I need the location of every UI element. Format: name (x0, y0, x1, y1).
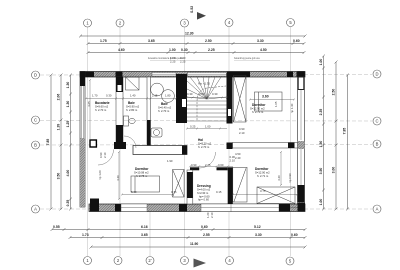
dimension left col mid: 2.06 1.39 3.50 (60, 74, 63, 211)
svg-text:11.90: 11.90 (190, 242, 198, 246)
door arc bath1 bottom (124, 136, 136, 148)
dimension row2 top: 1.75 3.65 2.50 3.30 0.60 (87, 42, 306, 45)
svg-text:hp 1.30: hp 1.30 (290, 103, 294, 113)
svg-text:0.30: 0.30 (106, 94, 112, 98)
svg-text:1.00: 1.00 (319, 199, 323, 206)
svg-text:h: 2.80 m: h: 2.80 m (126, 108, 138, 112)
svg-text:fereastra montata la grinda pe: fereastra montata la grinda peste (148, 57, 184, 60)
svg-text:3.65: 3.65 (141, 233, 148, 237)
dimension right col outer 7.85 (346, 74, 349, 211)
svg-text:0.35: 0.35 (66, 200, 70, 207)
svg-text:1.40: 1.40 (130, 94, 136, 98)
svg-text:3.60: 3.60 (262, 95, 269, 99)
svg-text:S=4.00 m2: S=4.00 m2 (197, 188, 211, 192)
interior vertical dim line kitchen x90 (89, 79, 91, 141)
door arc kitchen from hol (98, 150, 114, 166)
interior dim line top-right room y99 (249, 99, 295, 101)
svg-text:C: C (34, 118, 37, 123)
svg-text:3.65: 3.65 (87, 101, 91, 107)
svg-text:h: 2.71 m: h: 2.71 m (257, 174, 269, 178)
wardrobe with X bottom-left room (173, 170, 185, 198)
interior wall between baths vertical x147-150.5 (147, 77, 151, 148)
svg-text:h: 2.70 m: h: 2.70 m (198, 145, 210, 149)
svg-text:2.10: 2.10 (103, 152, 107, 158)
svg-text:1.90: 1.90 (167, 159, 173, 163)
svg-text:1.80: 1.80 (165, 94, 171, 98)
bottom-right bedroom label (255, 167, 270, 178)
svg-text:1.00: 1.00 (205, 125, 211, 129)
top-right bedroom bed (255, 92, 283, 111)
top-right bedroom label (250, 103, 266, 114)
grid bubble C right (373, 117, 381, 125)
svg-text:1.00: 1.00 (319, 59, 323, 66)
dimension bottom row2: 1.73 3.65 2.55 3.30 0.60 (69, 236, 307, 239)
grid axis line 4 vertical (228, 27, 230, 256)
svg-text:D: D (34, 73, 37, 78)
svg-text:Bucatarie: Bucatarie (95, 101, 110, 105)
svg-text:2.75: 2.75 (205, 163, 211, 167)
grid bubble B left (32, 141, 40, 149)
svg-text:1.30: 1.30 (66, 82, 70, 89)
bath1 room label (126, 101, 140, 112)
svg-text:2.50: 2.50 (199, 92, 205, 96)
dimension bottom row1: 0.55 6.16 0.60 5.12 (51, 228, 307, 231)
svg-text:S=10.08 m2: S=10.08 m2 (134, 171, 149, 175)
svg-text:A: A (376, 207, 379, 212)
svg-text:0.60: 0.60 (293, 39, 300, 43)
bed with X bottom-right room (257, 187, 295, 204)
svg-text:2.35: 2.35 (319, 109, 323, 116)
dressing left wall black part (187, 172, 193, 198)
svg-text:12.30: 12.30 (185, 32, 194, 36)
svg-text:3.20: 3.20 (116, 175, 120, 181)
dressing left wall x187-193 (187, 170, 193, 204)
mid wall band x133-187 (133, 146, 187, 155)
grid bubble 2 bottom (114, 257, 122, 265)
svg-text:Dormitor: Dormitor (255, 167, 269, 171)
grid bubble 3 top (181, 19, 189, 27)
dimension left col outer 7.85 (50, 74, 53, 211)
interior wall kitchen/bath vertical x116-123 (116, 77, 123, 148)
svg-text:Baie: Baie (128, 101, 135, 105)
north triangle bottom (194, 259, 207, 268)
dimension row3 top: 4.60 1.00 0.30 2.25 4.50 (87, 51, 306, 54)
svg-text:2': 2' (148, 258, 151, 263)
svg-text:hp 0.90: hp 0.90 (288, 173, 292, 183)
mid horizontal wall left pier (column, white core) (90, 140, 96, 147)
hol dim line y128 (186, 128, 227, 130)
svg-text:1.39: 1.39 (57, 124, 61, 131)
svg-text:hp 1.60: hp 1.60 (98, 170, 102, 180)
svg-text:0.25: 0.25 (190, 125, 196, 129)
svg-text:2.10: 2.10 (239, 131, 245, 135)
dimension line 12.30 top row1 (79, 35, 307, 38)
dressing top wall y167-170 (190, 167, 228, 170)
grid axis line 5 vertical (290, 27, 292, 256)
dimension left col inner: 1.30 1.30 1.25 4.00 0.35 (69, 74, 72, 211)
svg-text:0.30: 0.30 (181, 48, 188, 52)
svg-text:2.25: 2.25 (180, 60, 186, 64)
interior dim line upper rooms y98 (85, 98, 177, 100)
svg-text:3.20: 3.20 (277, 175, 281, 181)
svg-text:buiandrug peste gol usa: buiandrug peste gol usa (234, 57, 260, 60)
svg-text:B: B (376, 142, 379, 147)
dressing door dim line y166.3 (189, 165, 233, 167)
stair right wall x227-232.5 (227, 73, 233, 124)
grid bubble 1 bottom (84, 257, 92, 265)
north triangle top right (197, 12, 206, 20)
grid bubble D left (32, 71, 40, 79)
grid axis line 2' vertical (149, 207, 151, 256)
svg-text:0.60: 0.60 (201, 225, 208, 229)
grid bubble 3 bottom (181, 257, 189, 265)
svg-text:B: B (34, 143, 37, 148)
mid wall right thin segment x232-297 (227, 143, 298, 150)
grid bubble B right (373, 140, 381, 148)
svg-text:S=9.60 m2: S=9.60 m2 (95, 105, 109, 109)
grid bubble 4 top (225, 19, 233, 27)
bottom-left bedroom bed (131, 176, 160, 192)
svg-text:2.25: 2.25 (208, 48, 215, 52)
svg-text:1.73: 1.73 (82, 233, 89, 237)
svg-text:S=8.20 m2: S=8.20 m2 (198, 142, 212, 146)
svg-text:0.30: 0.30 (187, 92, 193, 96)
dimension right col inner: 1.00 2.35 1.50 3.50 1.00 (322, 55, 325, 211)
svg-text:0.60: 0.60 (291, 233, 298, 237)
right exterior wall (298, 72, 305, 208)
svg-text:2.50: 2.50 (332, 89, 336, 96)
svg-text:0.15: 0.15 (216, 190, 222, 194)
svg-text:2.10: 2.10 (230, 159, 236, 163)
sink bath1 (129, 118, 135, 123)
interior dim line bottom-left room y194.5 (121, 194, 174, 196)
stair treads and fan (187, 77, 227, 121)
svg-text:Hol: Hol (198, 138, 203, 142)
svg-text:5.12: 5.12 (254, 225, 261, 229)
masonry block bath/stair x176-187 (176, 74, 187, 123)
svg-text:3.50: 3.50 (319, 168, 323, 175)
svg-text:1.30: 1.30 (66, 101, 70, 108)
door arc dressing to hol (200, 152, 216, 168)
sliding wardrobe with diagonal in dormitor2 (233, 167, 247, 202)
svg-text:2.55: 2.55 (203, 233, 210, 237)
svg-text:4.50: 4.50 (260, 48, 267, 52)
svg-text:h: 2.70 m: h: 2.70 m (95, 108, 107, 112)
svg-text:D: D (375, 72, 378, 77)
grid bubble 4 bottom (226, 257, 234, 265)
svg-text:7.85: 7.85 (46, 139, 50, 146)
left exterior wall (80, 72, 85, 208)
svg-text:3.00: 3.00 (332, 167, 336, 174)
interior dim line bottom-right y194.5 (232, 194, 298, 196)
svg-text:h: 2.70 m: h: 2.70 m (158, 109, 170, 113)
grid bubble C left (32, 116, 40, 124)
grid bubble 2' bottom (146, 257, 154, 265)
svg-text:0.60: 0.60 (218, 163, 224, 167)
svg-text:S=5.90 m2: S=5.90 m2 (126, 105, 140, 109)
svg-text:C: C (375, 119, 378, 124)
svg-text:Dressing: Dressing (197, 184, 211, 188)
hol room label (198, 138, 212, 149)
svg-text:4.60: 4.60 (118, 48, 125, 52)
mid horizontal wall segment black x114-126 (114, 142, 126, 149)
svg-text:S=6.40 m2: S=6.40 m2 (158, 106, 172, 110)
toilet WC bath2 (151, 128, 162, 137)
top exterior wall band (80, 72, 305, 78)
svg-text:1.50: 1.50 (319, 141, 323, 148)
svg-text:2.25: 2.25 (170, 60, 176, 64)
kitchen counter rect (124, 116, 129, 126)
svg-text:2.50: 2.50 (205, 39, 212, 43)
dimension right col mid: 2.50 3.00 (335, 61, 338, 211)
svg-text:5.10: 5.10 (131, 190, 137, 194)
svg-text:1.05: 1.05 (274, 101, 278, 107)
grid axis line D horizontal (40, 74, 372, 77)
svg-text:1.25: 1.25 (66, 121, 70, 128)
svg-text:2.40: 2.40 (235, 156, 241, 160)
interior vertical dim line bottom-right x281 (280, 151, 282, 186)
bottom-left bedroom label (134, 167, 149, 178)
bottom exterior wall band (89, 199, 305, 212)
svg-text:2.10: 2.10 (210, 212, 214, 218)
interior vertical dim line bottom-left x119 (118, 151, 120, 200)
grid axis line A horizontal (40, 208, 372, 210)
svg-text:S=12.00 m2: S=12.00 m2 (255, 171, 270, 175)
svg-text:S-52: S-52 (190, 6, 194, 13)
svg-text:3.30: 3.30 (255, 233, 262, 237)
svg-text:hp= 0.60: hp= 0.60 (198, 198, 209, 202)
svg-text:0.90: 0.90 (191, 163, 197, 167)
svg-text:0.30: 0.30 (212, 92, 218, 96)
grid axis line 2 vertical (119, 27, 121, 256)
dimension bottom row3: 11.90 (90, 246, 307, 249)
stair dim line y97 (186, 97, 228, 99)
grid bubble 5 bottom (286, 257, 294, 265)
grid bubble 2 top (116, 19, 124, 27)
svg-text:3.65: 3.65 (148, 39, 155, 43)
svg-text:2.06: 2.06 (57, 94, 61, 101)
corner bathtub bath2 circles (151, 83, 175, 102)
bath2 room label (158, 102, 172, 113)
shower cabin bath1 (126, 77, 140, 90)
svg-text:1.75: 1.75 (100, 39, 107, 43)
dressing right wall x228-233 (228, 167, 233, 204)
dressing room label (197, 184, 211, 199)
svg-text:h=2.30 m: h=2.30 m (197, 191, 209, 195)
svg-text:6.16: 6.16 (141, 225, 148, 229)
svg-text:Baie: Baie (161, 102, 168, 106)
chimney closet with X right of stair (234, 76, 247, 123)
grid bubble 1 top (84, 19, 92, 27)
grid bubble 5 top (287, 19, 295, 27)
grid axis line C horizontal (40, 120, 372, 123)
svg-text:A: A (34, 207, 37, 212)
grid axis line 3 vertical (184, 27, 186, 256)
grid bubble D right (373, 70, 381, 78)
svg-text:Niv +1.35: Niv +1.35 (198, 82, 210, 86)
svg-text:Dormitor: Dormitor (252, 103, 266, 107)
grid bubble A right (373, 205, 381, 213)
kitchen room label (95, 101, 110, 112)
svg-text:4.00: 4.00 (66, 170, 70, 177)
grid axis line B horizontal (40, 144, 372, 147)
svg-text:0.55: 0.55 (53, 225, 60, 229)
grid bubble A left (32, 205, 40, 213)
svg-text:3.50: 3.50 (57, 173, 61, 180)
svg-text:Dormitor: Dormitor (135, 167, 149, 171)
svg-text:7.85: 7.85 (343, 128, 347, 135)
svg-text:1.00: 1.00 (169, 48, 176, 52)
grid axis line 1 vertical (87, 27, 89, 256)
svg-text:1.70: 1.70 (92, 94, 98, 98)
svg-text:h: 2.70 m: h: 2.70 m (252, 110, 264, 114)
svg-text:3.30: 3.30 (257, 39, 264, 43)
svg-text:S=12.90 m2: S=12.90 m2 (250, 107, 265, 111)
